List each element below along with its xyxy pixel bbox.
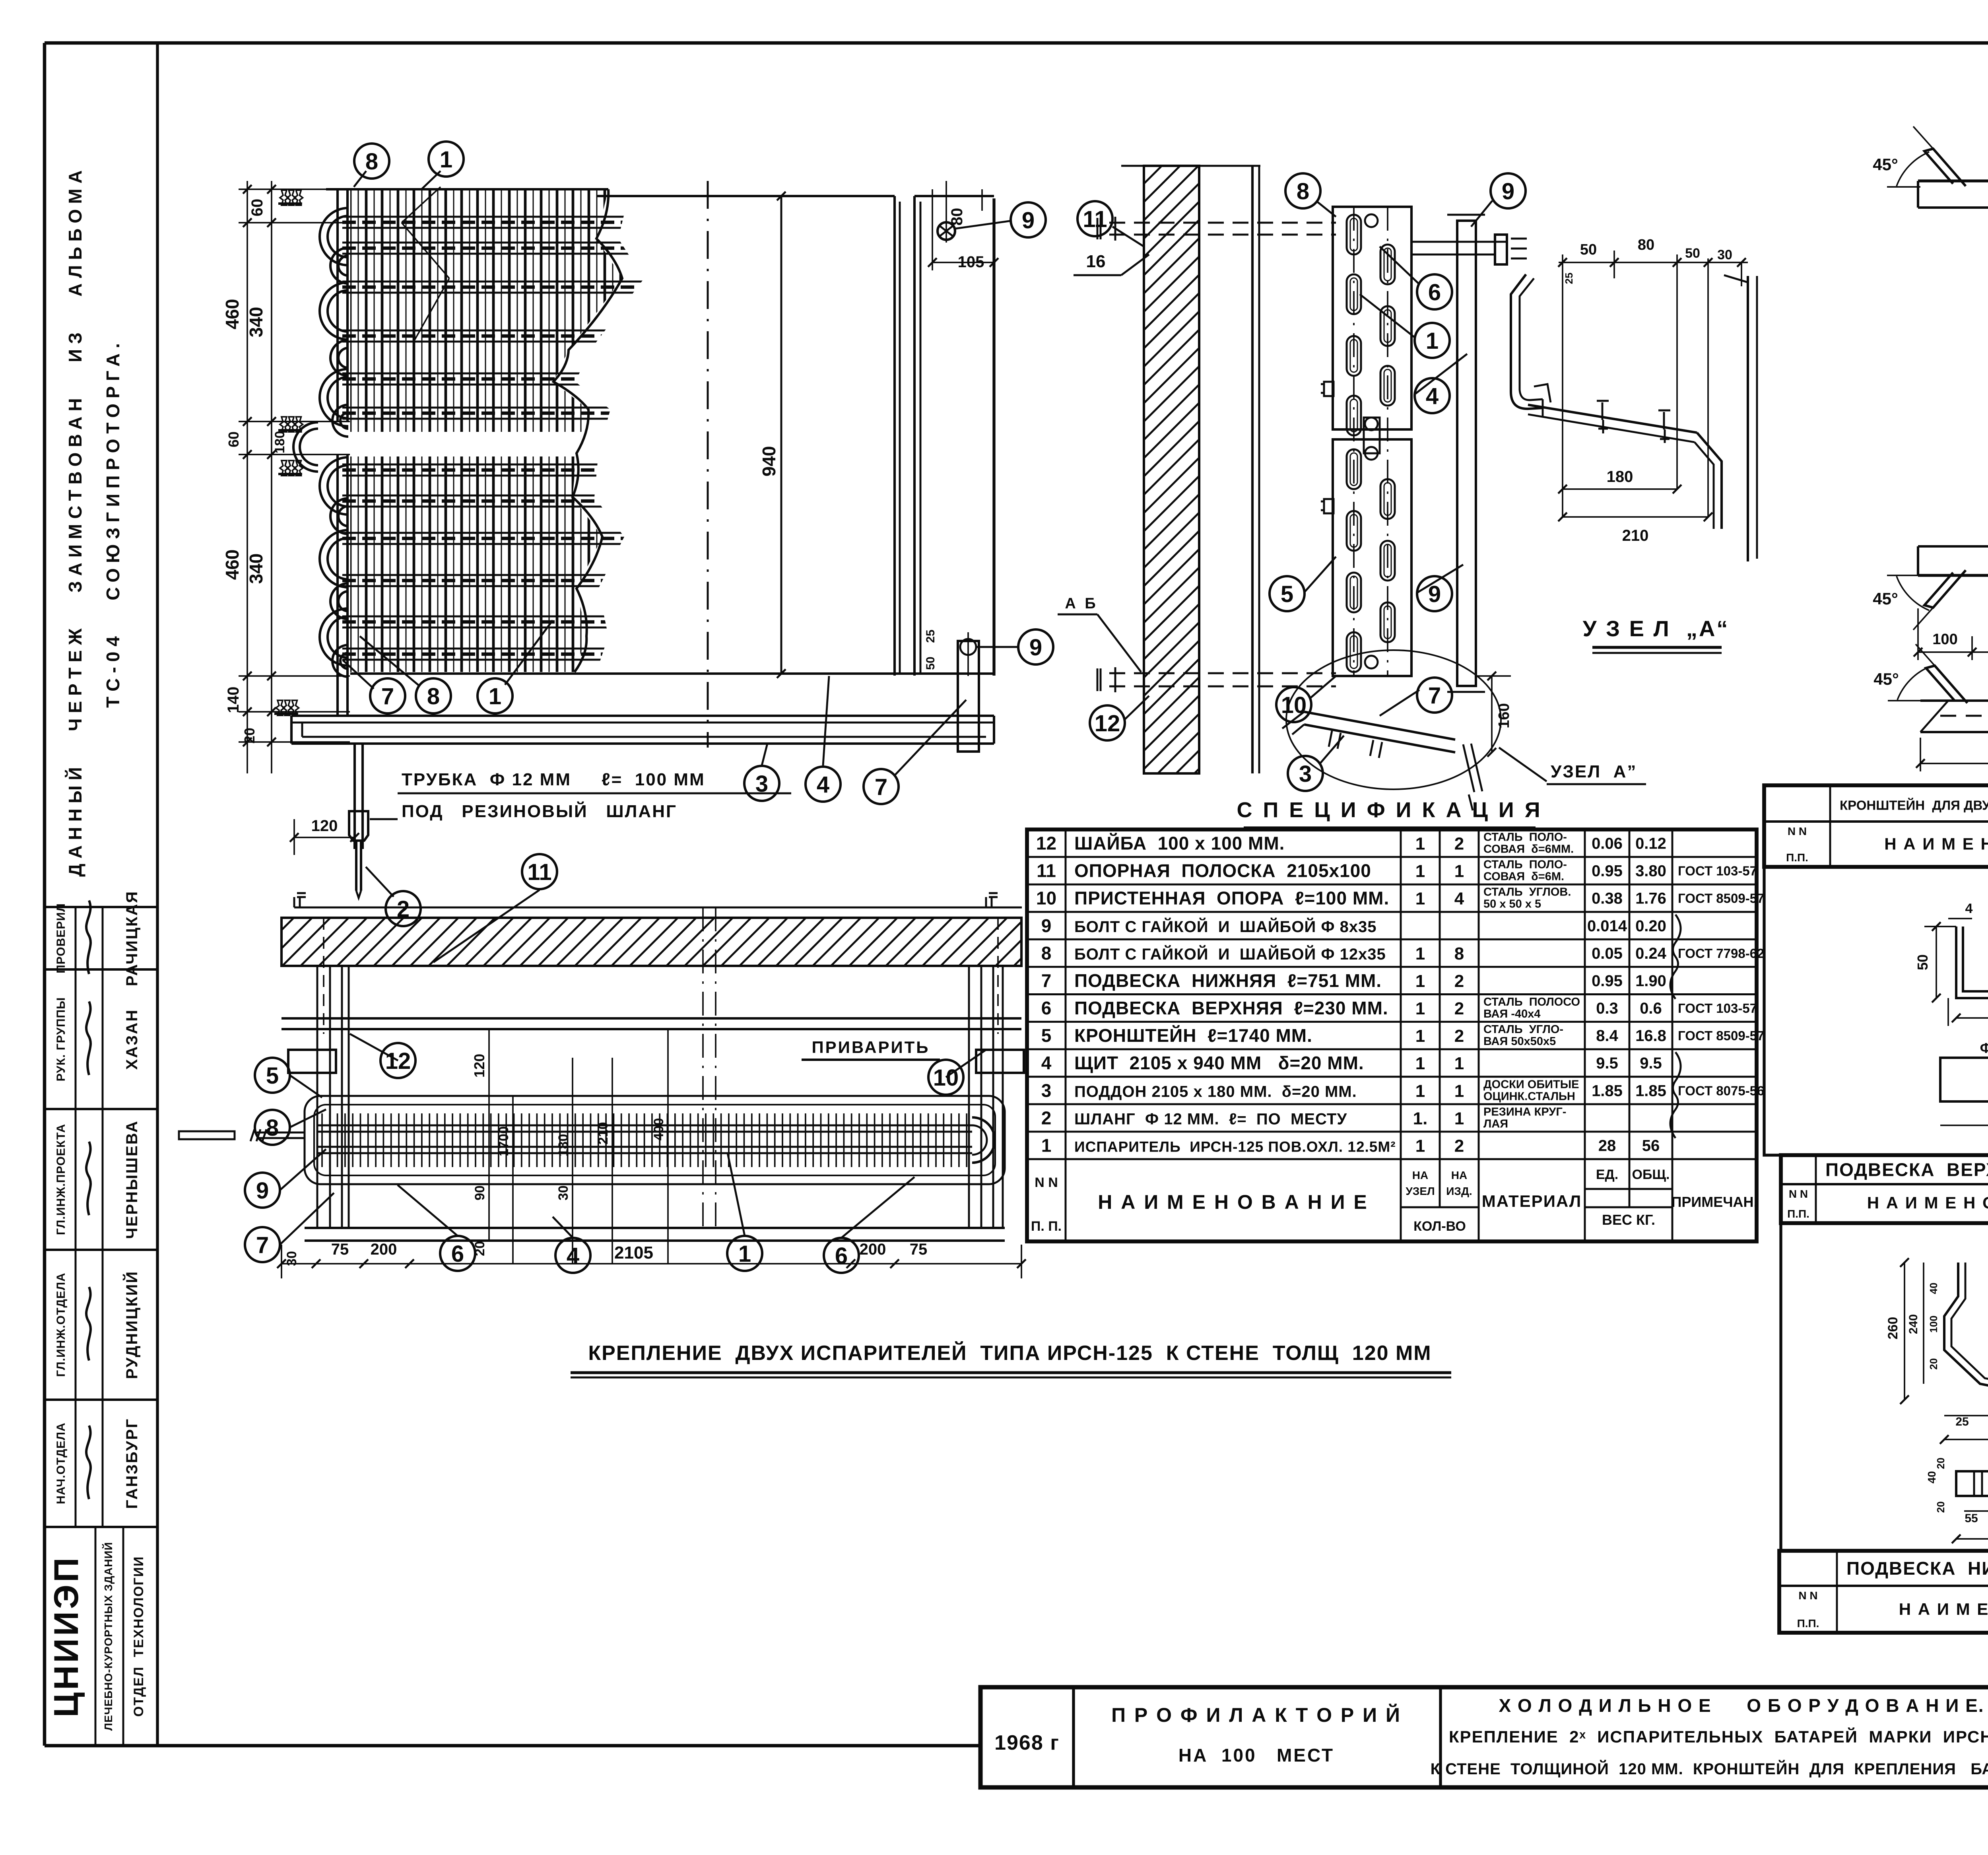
svg-text:УЗЕЛ: УЗЕЛ xyxy=(1406,1185,1435,1197)
svg-text:ГЛ.ИНЖ.ПРОЕКТА: ГЛ.ИНЖ.ПРОЕКТА xyxy=(54,1124,68,1235)
svg-text:ОЦИНК.СТАЛЬН: ОЦИНК.СТАЛЬН xyxy=(1483,1090,1575,1103)
dim 120 xyxy=(294,837,355,838)
svg-text:ГОСТ 103-57: ГОСТ 103-57 xyxy=(1678,1001,1757,1016)
svg-text:1: 1 xyxy=(1415,889,1425,909)
svg-text:БОЛТ С ГАЙКОЙ И ШАЙБОЙ Ф 8х3: БОЛТ С ГАЙКОЙ И ШАЙБОЙ Ф 8х35 xyxy=(1074,917,1377,936)
svg-text:0.20: 0.20 xyxy=(1635,917,1666,935)
callout 9 lower xyxy=(976,646,1018,648)
svg-text:7: 7 xyxy=(256,1232,269,1258)
svg-text:ОБЩ.: ОБЩ. xyxy=(1632,1167,1670,1182)
svg-text:25: 25 xyxy=(1955,1415,1969,1428)
svg-text:8: 8 xyxy=(266,1115,279,1141)
svg-text:К СТЕНЕ ТОЛЩИНОЙ 120 ММ. КР: К СТЕНЕ ТОЛЩИНОЙ 120 ММ. КРОНШТЕЙН ДЛЯ К… xyxy=(1431,1760,1988,1778)
svg-text:240: 240 xyxy=(1907,1314,1920,1334)
svg-text:СТАЛЬ ПОЛОСО: СТАЛЬ ПОЛОСО xyxy=(1483,996,1580,1008)
svg-text:5: 5 xyxy=(1281,581,1293,607)
svg-text:20: 20 xyxy=(1928,1358,1939,1370)
svg-text:140: 140 xyxy=(225,687,242,713)
kronstein for two evaporators table xyxy=(1764,785,1988,867)
slanted tray bottom xyxy=(1304,712,1455,752)
svg-text:РУК. ГРУППЫ: РУК. ГРУППЫ xyxy=(54,997,68,1081)
svg-text:СТАЛЬ ПОЛО-: СТАЛЬ ПОЛО- xyxy=(1483,831,1567,844)
svg-text:11: 11 xyxy=(1083,206,1107,232)
svg-text:ДАННЫЙ ЧЕРТЕЖ ЗАИМСТВОВАН: ДАННЫЙ ЧЕРТЕЖ ЗАИМСТВОВАН ИЗ АЛЬБОМА xyxy=(65,165,85,877)
svg-text:Н А И М Е Н О В А Н И Е: Н А И М Е Н О В А Н И Е xyxy=(1867,1193,1988,1212)
L-angle 50x50 view xyxy=(1914,901,1988,1037)
svg-text:ПОД РЕЗИНОВЫЙ ШЛАНГ: ПОД РЕЗИНОВЫЙ ШЛАНГ xyxy=(402,801,677,821)
svg-text:Н А И М Е Н О В А Н И Е: Н А И М Е Н О В А Н И Е xyxy=(1098,1191,1369,1213)
svg-text:П Р О Ф И Л А К Т О Р И Й: П Р О Ф И Л А К Т О Р И Й xyxy=(1111,1703,1402,1726)
svg-text:Н А И М Е Н О В А Н И Е: Н А И М Е Н О В А Н И Е xyxy=(1884,835,1988,853)
support strip bottom xyxy=(305,1227,1005,1229)
svg-text:6: 6 xyxy=(1041,998,1052,1018)
svg-text:120: 120 xyxy=(311,817,338,835)
svg-text:75: 75 xyxy=(910,1241,928,1258)
U-bends left xyxy=(320,208,348,677)
svg-text:10: 10 xyxy=(933,1065,959,1091)
svg-text:7: 7 xyxy=(381,684,394,709)
svg-text:20: 20 xyxy=(241,728,258,744)
svg-text:200: 200 xyxy=(371,1241,397,1258)
svg-text:ВАЯ 50х50х5: ВАЯ 50х50х5 xyxy=(1483,1035,1556,1048)
svg-text:МАТЕРИАЛ: МАТЕРИАЛ xyxy=(1482,1192,1582,1210)
podveska verkhnyaya table xyxy=(1781,1155,1988,1223)
svg-text:460: 460 xyxy=(222,299,243,330)
svg-text:1: 1 xyxy=(1415,862,1425,881)
svg-text:9: 9 xyxy=(1502,179,1514,204)
svg-text:4: 4 xyxy=(1041,1053,1052,1073)
svg-text:УЗЕЛ А”: УЗЕЛ А” xyxy=(1551,762,1637,781)
svg-text:10: 10 xyxy=(1036,888,1056,909)
svg-text:40: 40 xyxy=(1928,1283,1939,1294)
svg-text:28: 28 xyxy=(1598,1137,1616,1154)
svg-text:120: 120 xyxy=(471,1054,487,1078)
svg-text:ПОДВЕСКА ВЕРХНЯЯ ℓ=230: ПОДВЕСКА ВЕРХНЯЯ ℓ=230 xyxy=(1825,1160,1988,1180)
svg-text:3: 3 xyxy=(1041,1080,1052,1101)
svg-text:ВАЯ -40х4: ВАЯ -40х4 xyxy=(1483,1008,1541,1020)
svg-text:180: 180 xyxy=(272,431,287,454)
svg-text:7: 7 xyxy=(875,774,887,800)
svg-text:1: 1 xyxy=(1415,1081,1425,1101)
svg-text:80: 80 xyxy=(1638,237,1654,253)
svg-text:1: 1 xyxy=(1454,1109,1464,1128)
svg-text:1.85: 1.85 xyxy=(1592,1082,1623,1099)
svg-text:П.П.: П.П. xyxy=(1787,1208,1809,1220)
draining tray poddon xyxy=(291,715,994,717)
shield edge bar xyxy=(1457,221,1476,686)
svg-text:4: 4 xyxy=(1965,901,1973,916)
drain tube pos 2 xyxy=(353,744,356,849)
svg-text:0.95: 0.95 xyxy=(1592,862,1623,880)
svg-text:1: 1 xyxy=(1415,944,1425,963)
svg-text:ПРОВЕРИЛ: ПРОВЕРИЛ xyxy=(54,903,68,973)
callout 7 under grid xyxy=(343,660,374,689)
svg-text:11: 11 xyxy=(527,859,551,885)
inlet fittings xyxy=(278,202,302,205)
svg-text:9: 9 xyxy=(1041,915,1052,936)
svg-text:8: 8 xyxy=(1041,943,1052,963)
svg-text:1: 1 xyxy=(1454,1081,1464,1101)
svg-text:ПОДВЕСКА НИЖНЯЯ ℓ=751: ПОДВЕСКА НИЖНЯЯ ℓ=751 xyxy=(1846,1558,1988,1579)
svg-text:ГОСТ 8075-56: ГОСТ 8075-56 xyxy=(1678,1083,1764,1098)
svg-text:9: 9 xyxy=(1029,635,1042,660)
svg-text:0.06: 0.06 xyxy=(1592,835,1623,853)
lower hanger bar pos 7 xyxy=(958,641,979,752)
svg-text:1: 1 xyxy=(738,1241,751,1267)
svg-text:ИЗД.: ИЗД. xyxy=(1446,1185,1472,1197)
svg-text:ГОСТ 103-57: ГОСТ 103-57 xyxy=(1678,864,1757,878)
svg-text:50: 50 xyxy=(1580,241,1597,258)
svg-text:9: 9 xyxy=(1428,581,1441,607)
section callouts xyxy=(1316,201,1336,217)
svg-text:460: 460 xyxy=(222,550,243,580)
svg-text:0.38: 0.38 xyxy=(1592,890,1623,907)
svg-text:СОВАЯ δ=6ММ.: СОВАЯ δ=6ММ. xyxy=(1483,843,1574,856)
svg-text:1: 1 xyxy=(1454,862,1464,881)
svg-text:3.80: 3.80 xyxy=(1635,862,1666,880)
svg-text:100: 100 xyxy=(1932,631,1957,648)
sidebar signature table xyxy=(45,907,157,1527)
svg-text:180: 180 xyxy=(556,1134,571,1157)
svg-text:ПРИМЕЧАН.: ПРИМЕЧАН. xyxy=(1671,1194,1757,1210)
svg-text:ОПОРНАЯ ПОЛОСКА 2105х100: ОПОРНАЯ ПОЛОСКА 2105х100 xyxy=(1074,860,1371,881)
svg-text:12: 12 xyxy=(385,1048,411,1074)
svg-text:1.: 1. xyxy=(1413,1109,1428,1128)
specification table xyxy=(1027,829,1757,1241)
evaporator coil (plan) xyxy=(305,1096,1005,1184)
callout 1 top xyxy=(421,171,441,189)
plan callouts xyxy=(433,890,540,962)
svg-text:РУДНИЦКИЙ: РУДНИЦКИЙ xyxy=(122,1270,141,1379)
svg-text:НА: НА xyxy=(1451,1169,1467,1181)
callout 8 under grid xyxy=(360,636,419,686)
svg-text:45°: 45° xyxy=(1873,670,1899,688)
svg-text:1968 г: 1968 г xyxy=(994,1731,1060,1754)
svg-text:1: 1 xyxy=(1415,971,1425,991)
strip with two holes view xyxy=(1940,1040,1988,1141)
svg-text:0.24: 0.24 xyxy=(1635,945,1667,962)
svg-text:100: 100 xyxy=(1928,1315,1939,1332)
svg-text:400: 400 xyxy=(651,1118,666,1141)
svg-text:55: 55 xyxy=(1965,1512,1978,1525)
svg-text:ГАНЗБУРГ: ГАНЗБУРГ xyxy=(123,1418,141,1509)
svg-text:Ф8: Ф8 xyxy=(1980,1040,1988,1056)
svg-text:30: 30 xyxy=(1717,247,1732,262)
svg-text:ПОДВЕСКА НИЖНЯЯ ℓ=751 ММ.: ПОДВЕСКА НИЖНЯЯ ℓ=751 ММ. xyxy=(1074,970,1382,991)
svg-text:10: 10 xyxy=(1281,692,1307,718)
svg-text:СОВАЯ δ=6М.: СОВАЯ δ=6М. xyxy=(1483,870,1564,883)
svg-text:9: 9 xyxy=(1022,208,1035,233)
sidebar institute block CNIIEP xyxy=(95,1527,97,1746)
svg-text:40: 40 xyxy=(1926,1471,1938,1483)
svg-text:НАЧ.ОТДЕЛА: НАЧ.ОТДЕЛА xyxy=(54,1422,68,1504)
wall band hatched (plan) xyxy=(282,918,1021,966)
svg-text:1.76: 1.76 xyxy=(1635,890,1666,907)
svg-text:45°: 45° xyxy=(1873,589,1898,608)
left dimension chain xyxy=(247,181,248,773)
svg-text:N N: N N xyxy=(1788,825,1807,837)
svg-text:60: 60 xyxy=(225,431,242,447)
svg-text:1: 1 xyxy=(1454,1054,1464,1073)
svg-text:ЩИТ 2105 х 940 ММ δ=20 ММ.: ЩИТ 2105 х 940 ММ δ=20 ММ. xyxy=(1074,1053,1364,1073)
svg-text:ПОДДОН 2105 х 180 ММ. δ=20 ММ: ПОДДОН 2105 х 180 ММ. δ=20 ММ. xyxy=(1074,1083,1357,1100)
svg-text:ГОСТ 8509-57: ГОСТ 8509-57 xyxy=(1678,1028,1764,1043)
svg-text:2: 2 xyxy=(1454,834,1464,854)
svg-text:940: 940 xyxy=(759,446,779,477)
svg-text:8.4: 8.4 xyxy=(1596,1027,1618,1045)
svg-text:1: 1 xyxy=(1041,1135,1052,1156)
bottom bar 300 xyxy=(1956,1471,1988,1496)
svg-text:180: 180 xyxy=(1607,468,1633,486)
svg-text:КОЛ-ВО: КОЛ-ВО xyxy=(1413,1219,1466,1234)
svg-text:1: 1 xyxy=(489,684,501,709)
svg-text:4: 4 xyxy=(1426,383,1439,409)
svg-text:П.П.: П.П. xyxy=(1797,1617,1819,1630)
podveska nizhnyaya table xyxy=(1779,1551,1988,1633)
svg-text:0.6: 0.6 xyxy=(1640,1000,1662,1017)
uzel A detail drawing xyxy=(1511,237,1757,653)
svg-text:2: 2 xyxy=(1454,971,1464,991)
bracket plan view (460) xyxy=(1873,644,1988,771)
svg-text:РЕЗИНА КРУГ-: РЕЗИНА КРУГ- xyxy=(1483,1105,1566,1118)
svg-text:8: 8 xyxy=(1454,944,1464,963)
svg-text:ХАЗАН: ХАЗАН xyxy=(123,1009,141,1070)
svg-text:Х О Л О Д И Л Ь Н О Е О Б: Х О Л О Д И Л Ь Н О Е О Б О Р У Д О В А … xyxy=(1499,1695,1984,1716)
svg-text:20: 20 xyxy=(1935,1501,1947,1513)
svg-text:7: 7 xyxy=(1428,683,1441,709)
svg-text:ДОСКИ ОБИТЫЕ: ДОСКИ ОБИТЫЕ xyxy=(1483,1078,1579,1091)
wall cross-section drawing xyxy=(1058,110,1646,824)
svg-text:ГОСТ 7798-62: ГОСТ 7798-62 xyxy=(1678,946,1764,961)
title block xyxy=(980,1687,1988,1787)
svg-text:210: 210 xyxy=(596,1122,611,1145)
svg-text:0.3: 0.3 xyxy=(1596,1000,1618,1017)
svg-text:П. П.: П. П. xyxy=(1031,1219,1062,1234)
callout 2 xyxy=(366,867,394,897)
svg-text:БОЛТ С ГАЙКОЙ И ШАЙБОЙ Ф 12х: БОЛТ С ГАЙКОЙ И ШАЙБОЙ Ф 12х35 xyxy=(1074,945,1386,963)
svg-text:ПРИВАРИТЬ: ПРИВАРИТЬ xyxy=(812,1038,930,1057)
svg-text:340: 340 xyxy=(246,554,266,584)
svg-text:СТАЛЬ УГЛОВ.: СТАЛЬ УГЛОВ. xyxy=(1483,886,1571,899)
svg-text:ЧЕРНЫШЕВА: ЧЕРНЫШЕВА xyxy=(123,1120,141,1239)
svg-text:ШЛАНГ Ф 12 ММ. ℓ= ПО МЕСТУ: ШЛАНГ Ф 12 ММ. ℓ= ПО МЕСТУ xyxy=(1074,1110,1347,1128)
svg-text:6: 6 xyxy=(835,1243,848,1269)
svg-text:8: 8 xyxy=(1297,179,1309,204)
svg-text:ПОДВЕСКА ВЕРХНЯЯ ℓ=230 ММ.: ПОДВЕСКА ВЕРХНЯЯ ℓ=230 ММ. xyxy=(1074,998,1388,1018)
svg-text:НА 100 МЕСТ: НА 100 МЕСТ xyxy=(1178,1745,1334,1766)
tear break edge xyxy=(553,189,622,672)
svg-text:260: 260 xyxy=(1885,1317,1901,1340)
svg-text:11: 11 xyxy=(1037,860,1056,881)
sidebar divider xyxy=(156,43,159,1746)
svg-text:50: 50 xyxy=(1685,246,1700,261)
svg-text:8: 8 xyxy=(365,149,378,175)
svg-text:50: 50 xyxy=(1914,954,1931,970)
svg-text:ЛЕЧЕБНО-КУРОРТНЫХ ЗДАНИЙ: ЛЕЧЕБНО-КУРОРТНЫХ ЗДАНИЙ xyxy=(102,1542,115,1731)
svg-text:12: 12 xyxy=(1036,833,1056,854)
svg-text:210: 210 xyxy=(1622,527,1649,544)
bottom dimension chain xyxy=(282,1263,1021,1265)
svg-text:16: 16 xyxy=(1086,252,1106,271)
svg-text:50 х 50 х 5: 50 х 50 х 5 xyxy=(1483,898,1541,911)
svg-text:90: 90 xyxy=(472,1185,487,1200)
svg-text:16.8: 16.8 xyxy=(1635,1027,1666,1045)
bracket side view (C shape) xyxy=(1873,126,1988,660)
svg-text:ТРУБКА Ф 12 ММ ℓ= 100 ММ: ТРУБКА Ф 12 ММ ℓ= 100 ММ xyxy=(402,770,705,789)
svg-text:N N: N N xyxy=(1798,1589,1817,1602)
svg-text:КРОНШТЕЙН ℓ=1740 ММ.: КРОНШТЕЙН ℓ=1740 ММ. xyxy=(1074,1025,1312,1046)
svg-text:0.014: 0.014 xyxy=(1587,917,1627,935)
svg-text:С П Е Ц И Ф И К А Ц И Я: С П Е Ц И Ф И К А Ц И Я xyxy=(1237,798,1542,822)
bolt pos9 on shield xyxy=(938,222,955,240)
svg-text:5: 5 xyxy=(1041,1025,1052,1046)
svg-text:НА: НА xyxy=(1412,1169,1428,1181)
callout 9 xyxy=(955,221,1012,229)
svg-text:6: 6 xyxy=(1428,280,1441,305)
svg-text:ТС-04 СОЮЗГИПРОТОРГА.: ТС-04 СОЮЗГИПРОТОРГА. xyxy=(103,338,123,708)
callout 8 top xyxy=(354,171,366,187)
wall brackets verticals xyxy=(316,966,318,1228)
svg-text:4: 4 xyxy=(817,772,829,798)
svg-text:200: 200 xyxy=(860,1241,886,1258)
svg-text:2: 2 xyxy=(1454,1136,1464,1156)
svg-text:340: 340 xyxy=(246,307,266,338)
svg-text:8: 8 xyxy=(427,684,440,709)
svg-text:3: 3 xyxy=(1299,761,1312,787)
svg-text:0.05: 0.05 xyxy=(1592,945,1623,962)
svg-text:1.90: 1.90 xyxy=(1635,972,1666,990)
svg-text:N N: N N xyxy=(1789,1188,1808,1200)
svg-text:ШАЙБА 100 х 100 ММ.: ШАЙБА 100 х 100 ММ. xyxy=(1074,833,1285,854)
svg-text:Н А И М Е Н О В А Н И Е: Н А И М Е Н О В А Н И Е xyxy=(1899,1600,1988,1618)
svg-text:У З Е Л „А“: У З Е Л „А“ xyxy=(1583,616,1730,641)
svg-text:1.85: 1.85 xyxy=(1635,1082,1666,1099)
podveska verkhnyaya drawing box xyxy=(1781,1223,1988,1551)
svg-text:60: 60 xyxy=(248,199,266,217)
svg-text:9: 9 xyxy=(256,1178,269,1204)
kronstein drawing box xyxy=(1764,867,1988,1155)
channel with slots xyxy=(1333,207,1411,429)
svg-text:30: 30 xyxy=(556,1185,571,1200)
svg-text:9.5: 9.5 xyxy=(1596,1055,1618,1072)
svg-text:80: 80 xyxy=(948,208,966,226)
svg-text:30: 30 xyxy=(284,1251,299,1266)
svg-text:50: 50 xyxy=(924,657,937,670)
svg-text:4: 4 xyxy=(567,1243,579,1269)
svg-text:1: 1 xyxy=(440,147,452,173)
svg-text:N N: N N xyxy=(1035,1175,1058,1190)
svg-text:25: 25 xyxy=(924,629,937,643)
svg-text:СТАЛЬ ПОЛО-: СТАЛЬ ПОЛО- xyxy=(1483,859,1567,871)
svg-text:4: 4 xyxy=(1454,889,1464,909)
svg-text:1: 1 xyxy=(1415,1026,1425,1046)
svg-text:0.12: 0.12 xyxy=(1635,835,1666,853)
bent strip front view xyxy=(1944,1263,1988,1400)
svg-text:6: 6 xyxy=(451,1241,464,1267)
svg-text:12: 12 xyxy=(1095,711,1120,736)
svg-text:СТАЛЬ УГЛО-: СТАЛЬ УГЛО- xyxy=(1483,1023,1563,1036)
svg-text:А Б: А Б xyxy=(1065,595,1098,612)
svg-text:2: 2 xyxy=(1454,999,1464,1018)
svg-text:ИСПАРИТЕЛЬ ИРСН-125 ПОВ.ОХЛ.: ИСПАРИТЕЛЬ ИРСН-125 ПОВ.ОХЛ. 12.5М² xyxy=(1074,1138,1396,1155)
svg-text:20: 20 xyxy=(1935,1458,1947,1469)
svg-text:25: 25 xyxy=(1563,273,1575,284)
svg-text:КРЕПЛЕНИЕ ДВУХ ИСПАРИТЕЛЕЙ Т: КРЕПЛЕНИЕ ДВУХ ИСПАРИТЕЛЕЙ ТИПА ИРСН-125… xyxy=(588,1341,1431,1365)
svg-text:56: 56 xyxy=(1642,1137,1660,1154)
svg-text:РАЧИЦКАЯ: РАЧИЦКАЯ xyxy=(123,890,141,986)
svg-text:0.95: 0.95 xyxy=(1592,972,1623,990)
svg-text:ПРИСТЕННАЯ ОПОРА ℓ=100 ММ.: ПРИСТЕННАЯ ОПОРА ℓ=100 ММ. xyxy=(1074,888,1389,909)
evaporator front view drawing xyxy=(222,142,1053,926)
shield panel edges xyxy=(596,195,895,197)
svg-text:1700: 1700 xyxy=(496,1126,511,1156)
svg-text:1: 1 xyxy=(1415,834,1425,854)
svg-text:7: 7 xyxy=(1041,970,1052,991)
svg-text:ЕД.: ЕД. xyxy=(1596,1167,1618,1182)
svg-text:75: 75 xyxy=(331,1241,349,1258)
svg-text:1: 1 xyxy=(1415,999,1425,1018)
svg-text:5: 5 xyxy=(266,1063,279,1089)
tubes xyxy=(342,217,658,660)
svg-text:ГОСТ 8509-57: ГОСТ 8509-57 xyxy=(1678,891,1764,906)
svg-text:КРЕПЛЕНИЕ 2ˣ ИСПАРИТЕЛЬНЫХ: КРЕПЛЕНИЕ 2ˣ ИСПАРИТЕЛЬНЫХ БАТАРЕЙ МАРКИ… xyxy=(1449,1727,1988,1746)
svg-text:1: 1 xyxy=(1415,1136,1425,1156)
svg-text:ЦНИИЭП: ЦНИИЭП xyxy=(47,1555,85,1717)
callout 1 under grid xyxy=(505,620,553,685)
svg-text:160: 160 xyxy=(1496,703,1512,728)
callouts 3 and 4 xyxy=(762,744,767,765)
svg-text:КРОНШТЕЙН ДЛЯ ДВУХ ИСПАРИТЕЛ.: КРОНШТЕЙН ДЛЯ ДВУХ ИСПАРИТЕЛ.ℓ=1940ММ xyxy=(1840,798,1988,813)
svg-text:ВЕС КГ.: ВЕС КГ. xyxy=(1602,1212,1655,1228)
plan view: mounting of two evaporators xyxy=(179,854,1062,1278)
svg-text:9.5: 9.5 xyxy=(1640,1055,1662,1072)
svg-text:1: 1 xyxy=(1426,328,1439,354)
svg-text:2: 2 xyxy=(1454,1026,1464,1046)
svg-text:ГЛ.ИНЖ.ОТДЕЛА: ГЛ.ИНЖ.ОТДЕЛА xyxy=(54,1272,68,1377)
callout 7 xyxy=(895,700,966,775)
svg-text:45°: 45° xyxy=(1873,155,1898,174)
fins grid xyxy=(348,189,638,672)
svg-text:1: 1 xyxy=(1415,1054,1425,1073)
svg-text:ОТДЕЛ ТЕХНОЛОГИИ: ОТДЕЛ ТЕХНОЛОГИИ xyxy=(131,1556,146,1717)
svg-text:2: 2 xyxy=(1041,1107,1052,1128)
svg-text:2105: 2105 xyxy=(614,1243,653,1263)
svg-text:П.П.: П.П. xyxy=(1786,851,1808,864)
svg-text:ЛАЯ: ЛАЯ xyxy=(1483,1117,1508,1130)
